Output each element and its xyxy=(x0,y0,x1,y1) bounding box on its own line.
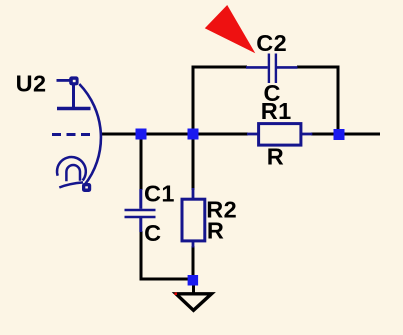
plate pin square xyxy=(69,76,78,85)
svg-text:C: C xyxy=(144,220,161,246)
wire: right vertical of top loop xyxy=(337,66,340,135)
wire: C1 branch vertical bottom xyxy=(140,231,143,281)
svg-text:C2: C2 xyxy=(256,30,287,56)
wire: ground stub xyxy=(192,280,195,294)
pin lead to plate pin xyxy=(57,79,71,82)
capacitor C1 xyxy=(125,189,156,232)
svg-text:U2: U2 xyxy=(16,70,47,96)
triode U2 xyxy=(52,76,101,192)
svg-text:R1: R1 xyxy=(261,98,292,124)
cathode tail xyxy=(59,182,83,187)
resistor R1 xyxy=(247,124,312,146)
wire: left vertical of top loop xyxy=(192,66,195,135)
envelope arc xyxy=(79,84,101,185)
svg-text:R: R xyxy=(207,218,224,244)
cathode outer curl xyxy=(57,157,86,180)
grid dashed line xyxy=(52,133,92,136)
capacitor C2 xyxy=(246,54,298,84)
cathode pin square xyxy=(82,183,91,192)
junction at ground xyxy=(188,275,199,286)
junction at C1 branch xyxy=(136,129,147,140)
svg-text:R: R xyxy=(267,143,284,169)
wire: top horizontal right of C2 xyxy=(297,66,340,69)
wire: C1 branch vertical top xyxy=(140,134,143,190)
anode vertical xyxy=(72,85,75,107)
wire: R2 branch vertical top xyxy=(192,134,195,190)
junction at R2 branch xyxy=(188,129,199,140)
resistor R2 xyxy=(182,188,205,248)
wire: main horizontal right of R1 xyxy=(311,133,380,136)
wire: top horizontal left of C2 xyxy=(192,66,248,69)
wire: main horizontal left of R1 xyxy=(101,133,249,136)
wire: bottom horizontal to ground junction xyxy=(140,278,194,281)
junction right of R1 xyxy=(334,129,345,140)
probe marker red triangle xyxy=(205,5,256,53)
svg-text:C1: C1 xyxy=(144,180,175,206)
ground pin red dot xyxy=(175,293,178,296)
wire: R2 branch vertical bottom xyxy=(192,246,195,280)
ground xyxy=(176,294,212,311)
anode bar xyxy=(57,107,91,110)
cathode inner hook xyxy=(66,165,80,181)
